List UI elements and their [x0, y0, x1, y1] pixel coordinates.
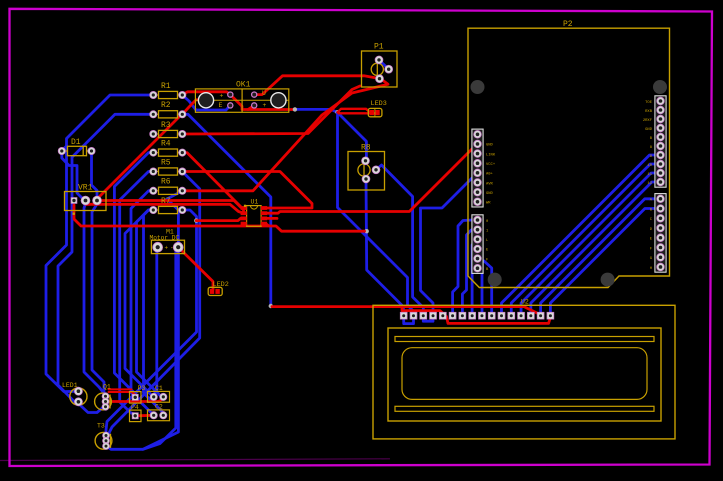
- mounting hole P2 top-right: [653, 80, 667, 94]
- wire blue M1-left down to C1 right pad: [154, 250, 158, 396]
- LED LED1: [62, 382, 87, 406]
- lcd module U2 inner module outline: [388, 328, 661, 421]
- wire blue U2 pad9 to P2 left strip2 pad4: [478, 249, 483, 314]
- svg-text:GND: GND: [486, 144, 494, 148]
- wire blue U2 pad6 to P2 left strip2 pad1: [453, 220, 472, 314]
- svg-text:Q1: Q1: [103, 383, 111, 390]
- svg-text:R5: R5: [161, 158, 171, 167]
- svg-text:R7: R7: [161, 197, 171, 206]
- svg-text:C1: C1: [155, 385, 163, 392]
- wire red VR1 pad3 horizontal to U1 pad L1: [97, 201, 244, 209]
- svg-text:+: +: [263, 102, 267, 109]
- svg-text:OK1: OK1: [236, 81, 251, 90]
- transistor Q1: [95, 383, 112, 410]
- svg-text:11: 11: [647, 173, 652, 177]
- svg-text:-: -: [170, 245, 174, 252]
- svg-text:VR1: VR1: [78, 183, 93, 192]
- wire red P4 to C2 left pad: [135, 414, 154, 417]
- wire red R4-right diagonal to U1 pad L2: [182, 153, 243, 214]
- svg-text:H: H: [650, 267, 652, 271]
- wire red M1 right pad to LED2: [178, 247, 213, 289]
- pin header P2 left strip 1 with pin labels: [472, 129, 496, 207]
- pin header P2 left strip 2 with pin labels: [472, 215, 489, 274]
- wire blue P1 top pad to right pad: [379, 60, 389, 69]
- wire blue U2 pad3-pad4 hook: [423, 316, 433, 321]
- pin P4: [130, 404, 142, 422]
- wire blue R7-left branch to C1 right pad via bus x136: [137, 210, 164, 397]
- svg-text:Motor DC: Motor DC: [150, 234, 180, 241]
- wire blue U2 pad1-pad2 hook: [404, 316, 414, 324]
- wire red U2 underpads trace with upper branch: [402, 307, 551, 324]
- ic U1 (smd soic): [241, 198, 268, 226]
- via E near R7: [194, 218, 198, 222]
- lcd U2 bottom bar: [395, 406, 654, 411]
- svg-text:VCC+: VCC+: [486, 163, 496, 167]
- wire red R2-right pad to OK1 big pad 1: [182, 100, 206, 115]
- wire blue R8 right pad to U2 pad 3: [376, 165, 423, 314]
- svg-text:E: E: [219, 102, 223, 109]
- wire blue VR1 pad2 down to Q1 top: [84, 204, 106, 396]
- wire red VR1 pad1 under U1 to via D: [74, 205, 365, 231]
- mounting hole P2 bottom-left: [488, 273, 502, 287]
- svg-text:TOE: TOE: [645, 101, 653, 105]
- wire red VR1 pad2 to U1 pad L2: [86, 204, 244, 213]
- wire blue bundle U2 pads to P2 right header: [502, 155, 657, 314]
- pin P3: [130, 385, 146, 403]
- svg-text:C2: C2: [155, 404, 163, 411]
- transistor T3: [95, 423, 112, 450]
- svg-text:P1: P1: [374, 42, 384, 51]
- svg-text:+: +: [220, 92, 224, 99]
- wire blue U2 pad8 to P2 left strip2 pad3: [472, 239, 476, 314]
- svg-text:U2: U2: [521, 299, 529, 306]
- resistor R1: [149, 82, 186, 99]
- wire blue R6-left to C2 left pad via bus x131: [131, 191, 154, 415]
- svg-text:P2: P2: [563, 20, 573, 29]
- resistor R7: [149, 197, 186, 214]
- via A at blue to red transition: [269, 304, 273, 308]
- via C LED3 junction: [335, 110, 339, 114]
- wire red branch to OK1 pad d: [248, 105, 254, 109]
- wire blue U2 pad4 up to P2 left header pad 5: [421, 173, 478, 314]
- trimmer R8: [348, 144, 385, 190]
- resistor R6: [149, 178, 186, 195]
- wire red U1 pad L4 stub: [244, 224, 246, 226]
- wire red R5-right to U1 pad R1: [182, 172, 312, 209]
- motor connector M1: [150, 228, 185, 253]
- potentiometer VR1: [65, 183, 107, 215]
- wire red via E to U1 pad L3: [196, 218, 243, 220]
- wire blue branch to D1 left pad: [62, 146, 67, 151]
- svg-text:AVR: AVR: [486, 182, 494, 186]
- svg-text:P3: P3: [138, 385, 146, 392]
- svg-text:RXB: RXB: [645, 110, 653, 114]
- svg-text:LED2: LED2: [213, 281, 229, 289]
- wire blue R5-left to P4 via bus x120: [120, 172, 154, 415]
- via D red-blue junction right of U1: [365, 229, 369, 233]
- capacitor C2: [148, 404, 170, 421]
- wire blue via C down long to U2 pad 2: [338, 113, 414, 315]
- wire blue R2-right diagonal to via A: [182, 114, 270, 304]
- svg-text:GND: GND: [486, 192, 494, 196]
- pin header P2 right strip 1 with pin labels: [643, 96, 666, 187]
- svg-text:LINK: LINK: [486, 153, 496, 157]
- lcd U2 pin row 16 pads: [400, 312, 554, 320]
- wire red via C to LED3 pad1: [338, 109, 370, 112]
- svg-text:U: U: [262, 90, 266, 97]
- wire blue via C to R8 top pad: [338, 113, 367, 161]
- svg-text:D1: D1: [71, 138, 81, 147]
- svg-text:LED1: LED1: [62, 382, 78, 389]
- LED LED3 (smd): [368, 100, 387, 117]
- svg-text:U1: U1: [251, 198, 259, 205]
- svg-text:A0+: A0+: [486, 173, 494, 177]
- lcd module U2 outer outline: [373, 305, 675, 439]
- wire blue OK1 via B to LED3 junction: [297, 109, 338, 112]
- svg-text:R8: R8: [361, 144, 371, 153]
- mounting hole P2 top-left: [471, 80, 485, 94]
- wire blue R4-left to P3 via bus x114: [114, 153, 153, 395]
- via B: [293, 107, 297, 111]
- wire blue R7-left branch to C2 right pad via bus x143: [144, 210, 164, 415]
- wire blue VR1 pad3 down to Q1 middle: [92, 204, 106, 402]
- svg-text:10: 10: [647, 164, 652, 168]
- mounting hole P2 bottom-right: [601, 273, 615, 287]
- capacitor C1: [148, 385, 170, 402]
- wire red Q1 middle to C1 right pad: [106, 399, 164, 402]
- wire red OK1 pad c up to P1 bottom pad (line A): [254, 76, 379, 95]
- wire red U1 pad R2 to P2 left header pad 2: [267, 144, 478, 213]
- LED LED2 (smd): [208, 281, 229, 296]
- wire red U1 pad R4 stub: [267, 224, 270, 227]
- resistor R5: [149, 158, 186, 175]
- svg-text:R2: R2: [161, 101, 171, 110]
- wire blue R5-right via x200 to T3 middle: [106, 172, 200, 441]
- svg-text:+: +: [165, 245, 169, 252]
- svg-text:R4: R4: [161, 139, 171, 148]
- wire net VCC blue R1-left to LED1 top: [46, 95, 153, 392]
- svg-text:WR: WR: [486, 202, 491, 206]
- wire blue M1-right to C2 right pad: [143, 249, 178, 449]
- wire blue R6-right crossing R7 down to T3 bottom loop: [106, 191, 182, 450]
- wire red Q1 to P3 double line lower: [109, 392, 136, 395]
- wire blue R2-left to LED1 bottom: [58, 114, 153, 402]
- wire blue U2 pad10 to P2 left strip2 pad5: [484, 261, 492, 314]
- svg-text:12: 12: [647, 182, 652, 186]
- svg-text:R3: R3: [161, 121, 171, 130]
- diode D1: [58, 138, 96, 156]
- wire blue R1-right to OK1 pad E: [182, 95, 230, 110]
- wire red R1-right to OK1 pad plus: [182, 92, 230, 95]
- board outline dim rectangle (dimension layer): [0, 459, 390, 461]
- resistor R3: [149, 121, 186, 138]
- wire blue R8 bottom pad down via D to U2 pad 1: [366, 179, 404, 314]
- wire red OK1 pad plus zigzag to via B and LED3 feed: [230, 95, 295, 110]
- wire red R6-right to P1 diagonal (line B2): [182, 79, 388, 191]
- trimmer P1: [362, 42, 398, 87]
- wire red via A to U2 pad 15: [272, 307, 541, 316]
- wire red P3 pad stub: [134, 397, 136, 401]
- lcd U2 display window: [402, 348, 647, 400]
- lcd U2 top bar: [395, 337, 654, 342]
- wire blue D1-left to VR1 pad2 via x77: [62, 153, 86, 198]
- wire red VR1 pad3 diagonal to R2 right pad: [97, 114, 182, 199]
- wire blue U2 pad7 to P2 left strip2 pad2: [462, 230, 472, 314]
- pin header P2 right strip 2 with pin labels: [650, 194, 666, 273]
- optocoupler OK1: [195, 81, 288, 113]
- connector P2 board outline: [468, 28, 670, 287]
- svg-text:R6: R6: [161, 178, 171, 187]
- wire blue LED1 bottom loop to Q1 bottom: [78, 402, 105, 413]
- wire blue R7-right via x197 to T3 top: [106, 210, 197, 436]
- svg-text:GND: GND: [645, 128, 653, 132]
- wire blue R7-left to C1 left pad via bus x125: [125, 210, 154, 397]
- svg-text:T3: T3: [97, 423, 105, 430]
- wire red via C to LED3 pad2: [339, 112, 377, 114]
- resistor R4: [149, 139, 186, 156]
- svg-text:LED3: LED3: [371, 100, 387, 108]
- resistor R2: [149, 101, 186, 118]
- wire red R3-right to P1 (line B1): [182, 86, 360, 134]
- svg-text:P4: P4: [131, 404, 139, 411]
- svg-text:2RXF: 2RXF: [643, 119, 653, 123]
- wire blue D1-right to VR1 pad3: [92, 151, 98, 196]
- svg-text:R1: R1: [161, 82, 171, 91]
- wire red U1 pad R3 stub: [267, 217, 278, 220]
- wire red Q1 to P3 double line upper: [109, 388, 132, 390]
